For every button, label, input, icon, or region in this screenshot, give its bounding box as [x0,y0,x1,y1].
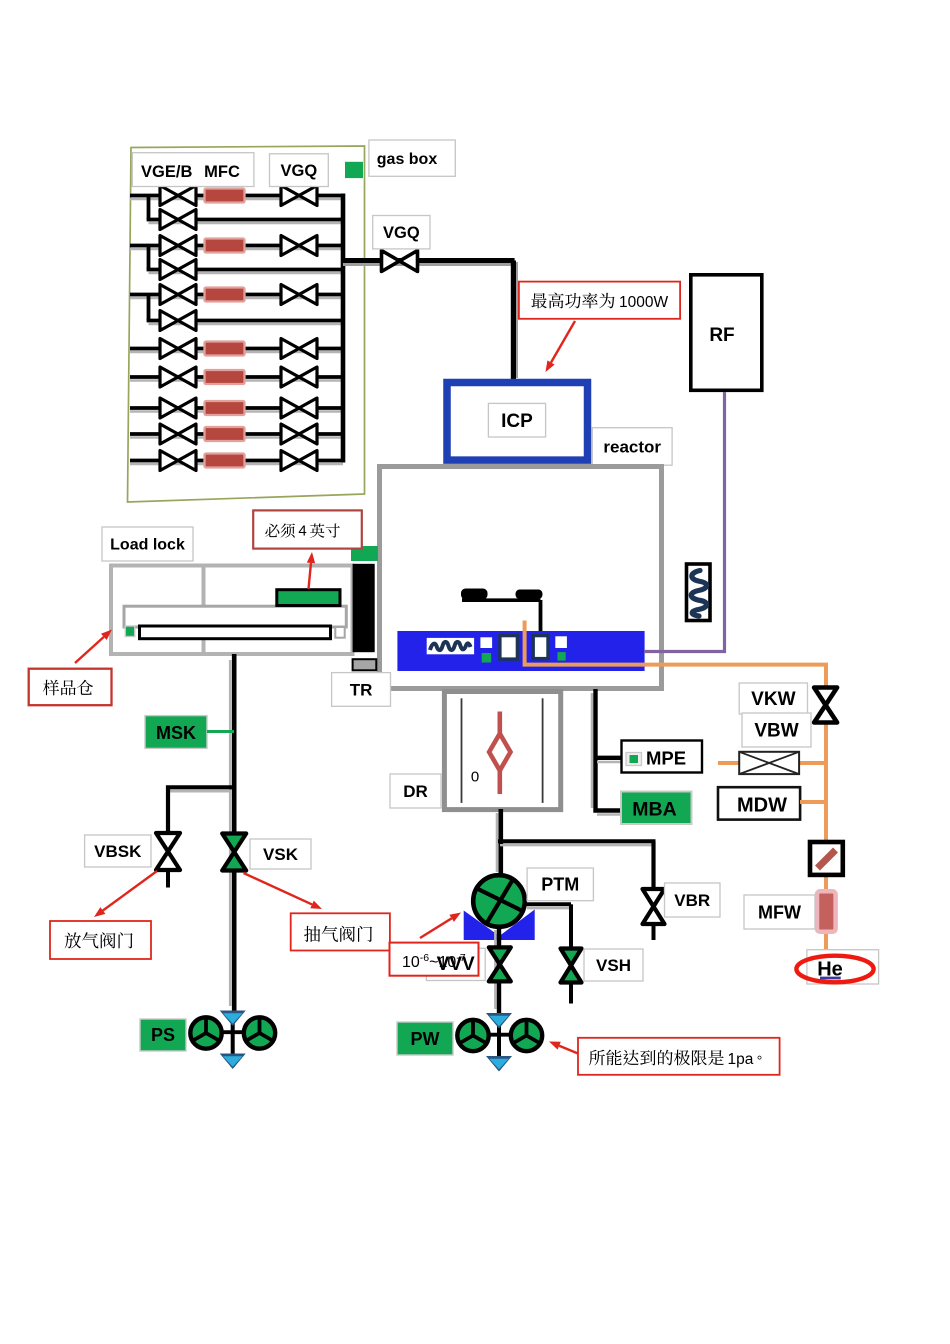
crossed box VBW [739,752,799,774]
reactor chamber [380,467,662,689]
gate valve column [353,564,375,652]
svg-text:ICP: ICP [501,411,533,432]
pump PS [231,1011,235,1067]
annotation box vent valve [50,921,151,959]
rail white square [335,627,344,638]
gas line 2 with valve VGE2, MFC2, valve VGQ2 [130,248,343,251]
label ICP [488,403,545,437]
svg-text:reactor: reactor [603,437,661,456]
DR inner guide right [542,698,544,803]
label VBR [665,883,721,917]
gas line 7 with valve VGE7, MFC7, valve VGQ7 [130,436,343,439]
annotation box sample chamber [29,669,112,706]
label VBSK [85,835,151,867]
label VGE/B MFC [132,153,254,187]
label Load lock [102,527,193,561]
turbo pump PTM [473,875,525,927]
label DR [390,774,441,808]
VBW stub right [799,761,826,765]
svg-text:Load lock: Load lock [110,537,185,554]
svg-text:MPE: MPE [646,748,686,769]
valve VKW [814,688,837,723]
svg-text:VSK: VSK [263,845,299,864]
DR inner guide left [461,698,463,803]
green indicator square (gas box) [345,162,363,178]
wire PTM to VSH [525,902,572,906]
gas line 1 with valve VGE1, MFC1, valve VGQ1 [130,198,343,201]
label PW box [397,1022,453,1055]
MPE green square [626,753,642,766]
label PS box [140,1019,186,1051]
bypass gas line 2 with valve VGB2 [147,246,151,270]
arrow to load lock [75,637,104,663]
wire DR to PTM [496,813,499,872]
svg-text:PW: PW [411,1029,440,1049]
gas line 3 with valve VGE3, MFC3, valve VGQ3 [130,297,343,300]
matching network coil [691,571,706,617]
svg-text:VBR: VBR [674,891,710,910]
svg-text:VGE/B: VGE/B [141,163,192,181]
label VGQ (inside gas box) [270,154,329,187]
svg-text:VGQ: VGQ [383,224,420,242]
label reactor [592,428,672,466]
svg-text:PTM: PTM [541,875,579,895]
label VBW [742,713,811,747]
stage sensor box 2 [533,636,548,659]
RF generator box [691,275,762,391]
arrow to PTM [420,918,452,938]
rail green square [125,626,134,637]
wire load lock to pump [229,660,232,1006]
svg-text:4: 4 [298,523,306,540]
svg-text:PS: PS [151,1025,175,1045]
stage white square 2 [555,636,567,648]
DR throttle body [444,692,560,810]
valve VSK [222,834,246,871]
valve VBR [643,889,665,924]
stage white square 1 [480,637,492,648]
label TR [332,673,391,707]
wafer stage bar [397,631,644,671]
valve VBSK [156,833,180,870]
label VSH [584,949,643,981]
label VVV box [426,948,485,980]
DR butterfly valve [497,712,502,736]
stage heater symbol box [427,638,474,654]
gauge MBA box [621,792,692,825]
svg-text:MFW: MFW [758,902,801,922]
RF feed wire (purple) [644,392,725,652]
load lock divider [202,566,206,655]
annotation box must be 4 inch [253,510,362,548]
check valve box [810,842,843,875]
transfer arm [140,626,331,639]
pump PW [497,1014,501,1070]
svg-text:0: 0 [471,769,479,786]
bypass gas line 1 with valve VGB1 [147,196,151,220]
label VSK [250,839,311,869]
helium backside line [525,621,826,953]
label VGQ (main) [373,216,430,249]
MSK wire [207,730,234,733]
bypass gas line 3 with valve VGB3 [147,295,151,321]
gauge MDW box [718,787,800,819]
label MFW [744,895,815,929]
green square above gate [351,546,378,561]
valve VSH [561,949,582,983]
svg-text:MFC: MFC [204,163,240,181]
svg-text:VKW: VKW [751,689,795,710]
gas line 5 with valve VGE5, MFC5, valve VGQ5 [130,379,343,382]
svg-text:TR: TR [350,680,373,699]
stage green square 1 [482,653,491,663]
electrode left pad [461,589,488,600]
MDW stub right [800,800,826,804]
gas line 4 with valve VGE4, MFC4, valve VGQ4 [130,351,343,354]
svg-text:VGQ: VGQ [281,162,318,180]
electrode wire [462,598,541,602]
wafer (4 inch) [277,590,340,606]
arrow to PW [559,1046,578,1054]
svg-text:1000W: 1000W [619,294,668,311]
gas box enclosure [128,146,365,502]
svg-text:VVV: VVV [437,954,475,975]
annotation box limit 1pa [578,1038,780,1075]
svg-text:MDW: MDW [737,795,787,817]
svg-text:gas box: gas box [377,151,438,168]
matching network box [687,564,711,621]
wire PTM to PW [494,930,497,1009]
VBW stub left [718,761,739,765]
svg-text:MBA: MBA [632,799,676,821]
valve VGQ (main) [382,251,418,272]
gas line 8 with valve VGE8, MFC8, valve VGQ8 [130,463,343,466]
annotation box pump valve [291,913,390,950]
wire branch to VBR [498,839,656,843]
label VKW [739,683,807,714]
ICP source box [447,383,588,461]
svg-text:MSK: MSK [156,723,196,743]
label gas box [369,140,455,176]
svg-text:DR: DR [403,782,428,801]
wire reactor to gauges [591,693,594,808]
annotation box 1e-6 to 1e-7 [390,943,479,976]
gauge MPE box [622,741,703,773]
He source label [807,950,879,984]
svg-text:RF: RF [709,325,734,346]
flow meter MFW [817,891,836,932]
valve VVV [489,947,511,981]
svg-text:VBSK: VBSK [94,842,142,861]
gas manifold bus wire [341,194,346,463]
label PTM [527,868,593,901]
stage sensor box 1 [500,636,518,660]
load lock chamber [111,566,353,655]
pump cradle (blue) [464,910,535,941]
arrow vent valve [103,871,157,911]
He red ellipse [796,956,873,983]
arrow to ICP [551,321,575,362]
stage heater zigzag [430,642,471,650]
electrode right pad [516,590,543,600]
gray box below gate [353,659,377,670]
svg-text:VSH: VSH [596,956,631,975]
wire branch to VBSK [170,790,230,793]
transfer arm rail [124,606,346,627]
svg-text:1pa: 1pa [728,1051,754,1068]
stage green square 2 [558,652,566,661]
gas line 6 with valve VGE6, MFC6, valve VGQ6 [130,410,343,413]
label MSK box [145,716,207,749]
arrow to wafer [309,563,311,589]
annotation box max power 1000W [519,282,680,319]
svg-text:VBW: VBW [754,721,798,742]
arrow pump valve [244,873,313,904]
wire gas bus to ICP [341,258,515,263]
